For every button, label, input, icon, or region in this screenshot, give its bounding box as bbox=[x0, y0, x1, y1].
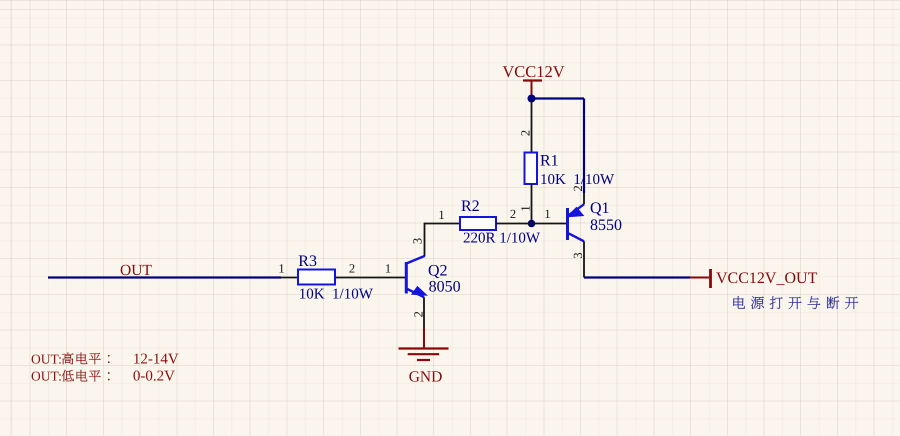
svg-text:3: 3 bbox=[411, 238, 425, 244]
text annotation dian-yuan-da-kai-yu-duan-kai bbox=[733, 296, 858, 309]
svg-text:Q2: Q2 bbox=[428, 263, 448, 280]
resistor R3 body bbox=[298, 270, 335, 285]
transistor Q2 collector bbox=[406, 238, 424, 264]
port lead VCC12V_OUT bbox=[690, 269, 711, 288]
svg-text:8050: 8050 bbox=[429, 279, 461, 296]
resistor R2 body bbox=[460, 217, 496, 230]
svg-text:2: 2 bbox=[571, 185, 585, 191]
wire Q1 collector to VCC12V_OUT bbox=[584, 276, 690, 278]
transistor Q2 emitter bbox=[406, 287, 425, 328]
svg-text:Q1: Q1 bbox=[590, 200, 610, 217]
svg-text:2: 2 bbox=[412, 311, 426, 317]
svg-text:GND: GND bbox=[409, 369, 443, 386]
svg-text:1: 1 bbox=[278, 262, 284, 276]
resistor R1 pin 2 bbox=[519, 101, 533, 153]
svg-text:1: 1 bbox=[544, 207, 550, 221]
svg-text:VCC12V: VCC12V bbox=[502, 62, 564, 81]
svg-text:2: 2 bbox=[510, 207, 516, 221]
svg-text:0-0.2V: 0-0.2V bbox=[133, 369, 175, 385]
svg-text:2: 2 bbox=[349, 262, 355, 276]
text annotation OUT high level 12-14V bbox=[31, 351, 179, 367]
svg-text:VCC12V_OUT: VCC12V_OUT bbox=[716, 270, 818, 287]
wire node B to Q1 base bbox=[532, 207, 569, 224]
svg-text:3: 3 bbox=[571, 252, 585, 258]
transistor Q1 base bar bbox=[566, 208, 569, 240]
text annotation OUT low level 0-0.2V bbox=[31, 369, 175, 385]
wire Q2 emitter to ground bbox=[423, 328, 425, 348]
junction node B bbox=[528, 220, 536, 228]
transistor Q1 collector bbox=[568, 233, 586, 278]
wire OUT net bbox=[48, 276, 281, 278]
junction node A bbox=[528, 95, 536, 103]
wire VCC rail to Q1 emitter bbox=[532, 99, 585, 194]
svg-text:12-14V: 12-14V bbox=[133, 351, 179, 367]
power symbol VCC12V bbox=[502, 62, 564, 99]
svg-text:1: 1 bbox=[519, 205, 533, 211]
svg-text:2: 2 bbox=[519, 130, 533, 136]
svg-text:R3: R3 bbox=[298, 253, 317, 270]
resistor R1 pin 1 bbox=[519, 184, 533, 220]
svg-text:OUT:: OUT: bbox=[31, 351, 62, 366]
wire Q2 collector corner to R2 bbox=[425, 223, 461, 257]
svg-text:R1: R1 bbox=[540, 153, 559, 170]
svg-text:R2: R2 bbox=[461, 198, 480, 215]
svg-text:8550: 8550 bbox=[590, 217, 622, 234]
resistor R1 body bbox=[525, 153, 538, 185]
svg-text:10K 1/10W: 10K 1/10W bbox=[299, 286, 374, 302]
svg-text:OUT:: OUT: bbox=[31, 369, 62, 384]
svg-text:1: 1 bbox=[438, 208, 444, 222]
ground symbol bbox=[399, 349, 449, 361]
resistor R3 pin 1 bbox=[278, 262, 298, 278]
svg-text:220R 1/10W: 220R 1/10W bbox=[463, 231, 541, 247]
transistor Q1 emitter bbox=[568, 185, 586, 216]
resistor R2 pin 2 bbox=[496, 207, 532, 224]
svg-text:1: 1 bbox=[385, 262, 391, 276]
transistor Q2 base bar bbox=[405, 262, 408, 294]
svg-text:OUT: OUT bbox=[120, 262, 152, 279]
wire R3 to Q2 base bbox=[335, 262, 405, 278]
